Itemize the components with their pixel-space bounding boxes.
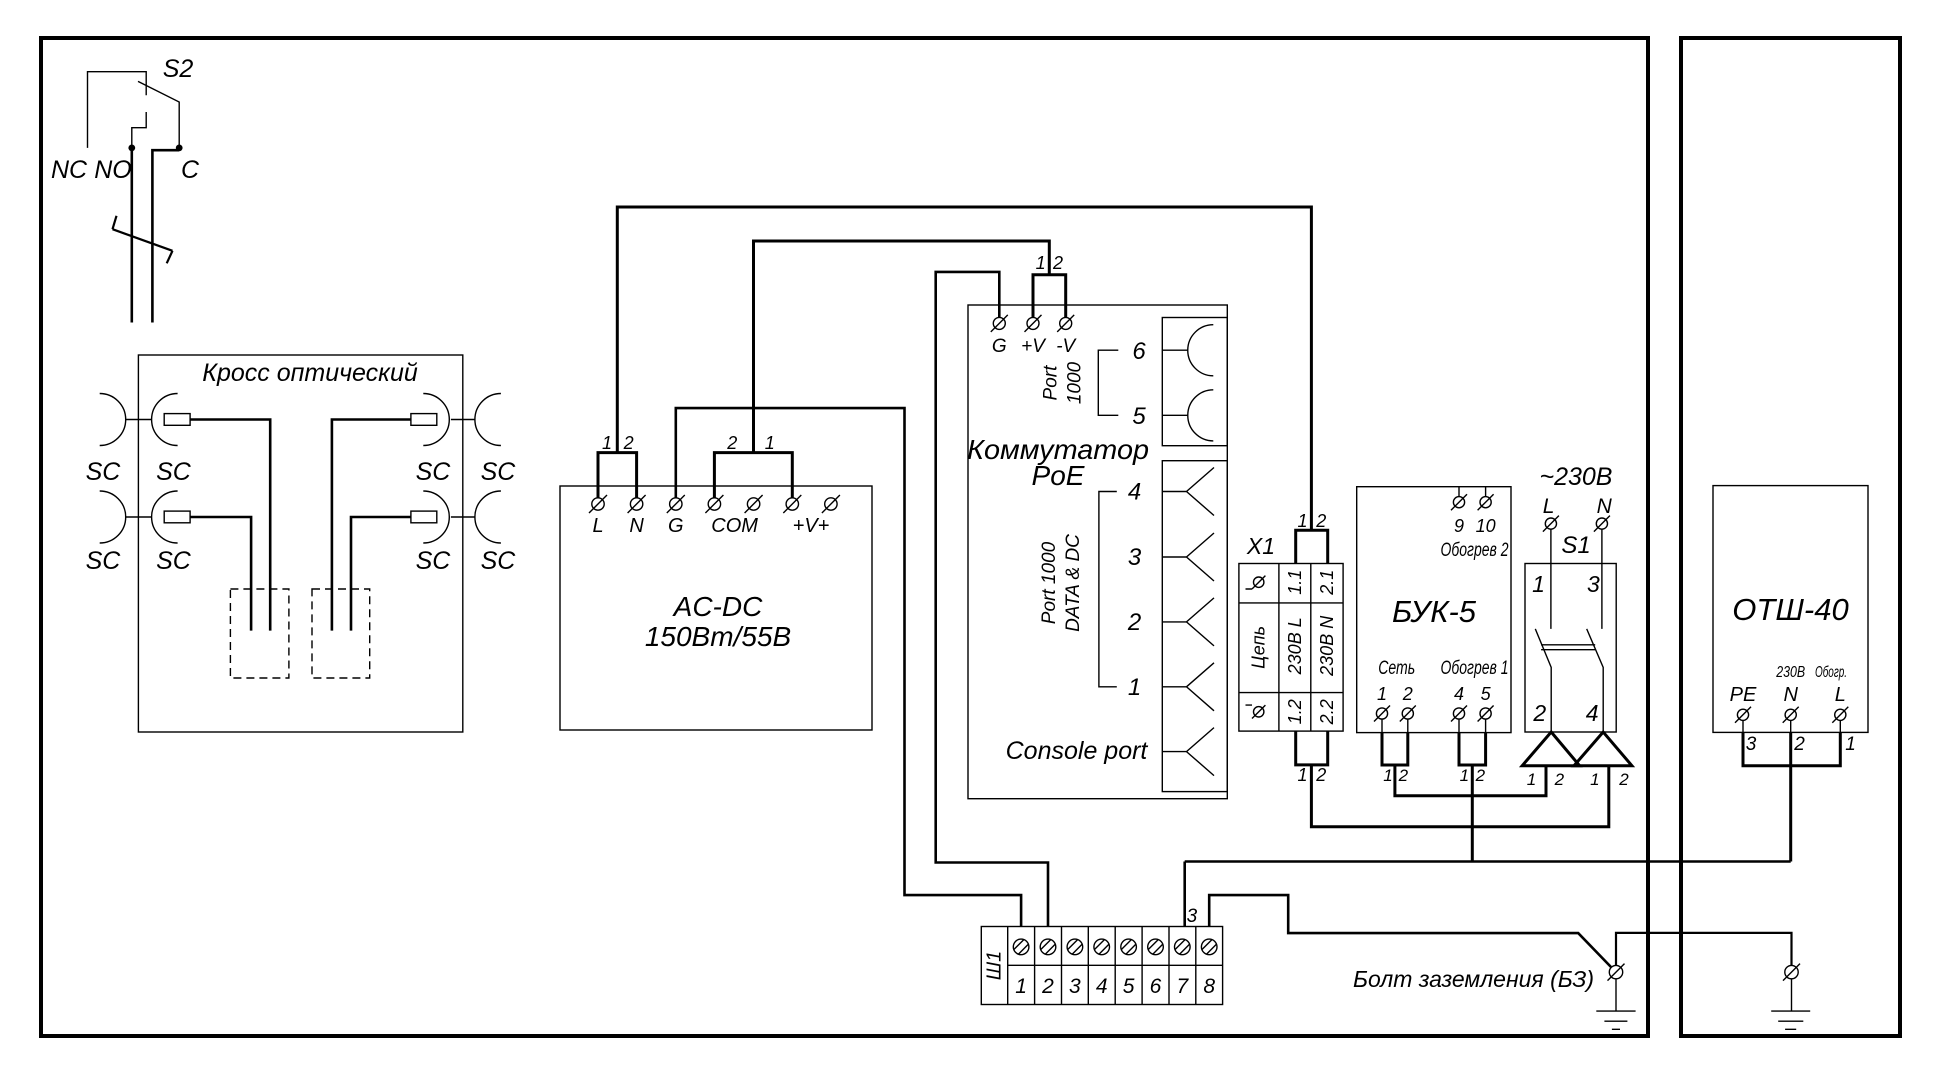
PoE switch box bbox=[968, 305, 1227, 799]
wire 55V from AC-DC to PoE switch bbox=[754, 241, 1050, 453]
Sh1 screws bbox=[1013, 939, 1217, 955]
svg-text:L: L bbox=[592, 515, 603, 537]
svg-text:2: 2 bbox=[1041, 975, 1054, 998]
svg-text:1.2: 1.2 bbox=[1285, 699, 1305, 724]
svg-text:1: 1 bbox=[1377, 684, 1387, 704]
svg-text:1: 1 bbox=[602, 433, 612, 453]
heater OTSh-40 box bbox=[1713, 486, 1868, 733]
svg-text:2: 2 bbox=[1315, 511, 1326, 531]
heater bus wire terminal7 to OTSh N bbox=[1185, 860, 1791, 863]
svg-text:G: G bbox=[992, 336, 1007, 357]
SC labels left bbox=[86, 458, 192, 575]
wire terminal8 to ground bolt bbox=[1209, 895, 1611, 967]
svg-text:6: 6 bbox=[1150, 975, 1162, 998]
svg-text:6: 6 bbox=[1132, 338, 1146, 365]
svg-text:N: N bbox=[1783, 684, 1798, 706]
OTSh pin numbers 3 2 1 bbox=[1746, 734, 1856, 755]
AC-DC power supply U1 bbox=[560, 486, 872, 730]
svg-text:~230В: ~230В bbox=[1540, 463, 1613, 491]
fiber wire right bottom bbox=[351, 517, 411, 631]
optical cross box bbox=[138, 355, 462, 732]
svg-text:2: 2 bbox=[726, 433, 737, 453]
plug symbol under S1 pin 4 bbox=[1574, 732, 1632, 766]
svg-text:NC: NC bbox=[51, 156, 88, 184]
svg-text:Ш1: Ш1 bbox=[984, 951, 1006, 981]
port 5 bbox=[1162, 390, 1213, 441]
svg-text:3: 3 bbox=[1069, 975, 1081, 998]
svg-text:PE: PE bbox=[1730, 684, 1757, 706]
port 6 bbox=[1162, 325, 1213, 376]
SC connector pair left bottom bbox=[100, 491, 126, 543]
wire PoE G to terminal 2 bbox=[936, 272, 1048, 927]
svg-text:4: 4 bbox=[1128, 479, 1141, 506]
svg-text:1000: 1000 bbox=[1065, 361, 1086, 404]
plug symbol under S1 pin 2 bbox=[1522, 732, 1579, 766]
svg-text:SC: SC bbox=[481, 547, 517, 575]
Port 1000 DATA and DC bracket bbox=[1099, 492, 1117, 687]
svg-text:5: 5 bbox=[1481, 684, 1492, 704]
S1 pole 1-2 bbox=[1535, 529, 1551, 732]
svg-text:2: 2 bbox=[1554, 770, 1565, 789]
wire from C down bbox=[152, 150, 179, 322]
fiber wire left top bbox=[190, 420, 270, 631]
AC-DC terminal labels bbox=[592, 515, 829, 537]
ground bolt BZ terminal bbox=[1608, 964, 1625, 981]
svg-text:2: 2 bbox=[1532, 700, 1546, 726]
svg-text:10: 10 bbox=[1476, 516, 1496, 536]
connector under Obogrev1 pins 1 2 bbox=[1459, 733, 1486, 765]
SC connector pair left top bbox=[100, 394, 126, 446]
svg-text:G: G bbox=[668, 515, 684, 537]
svg-text:2: 2 bbox=[1127, 609, 1141, 636]
svg-text:+V: +V bbox=[1021, 336, 1047, 357]
earth symbol left bbox=[1596, 979, 1635, 1030]
svg-text:7: 7 bbox=[1176, 975, 1189, 998]
BUK-5 pin numbers 1 2 4 5 bbox=[1377, 684, 1492, 704]
PoE terminal labels bbox=[992, 336, 1078, 357]
svg-text:N: N bbox=[1597, 495, 1613, 518]
svg-text:1: 1 bbox=[1460, 766, 1469, 785]
svg-text:9: 9 bbox=[1454, 516, 1464, 536]
svg-text:SC: SC bbox=[481, 458, 517, 486]
svg-text:SC: SC bbox=[416, 547, 452, 575]
controller BUK-5 box bbox=[1357, 487, 1511, 733]
svg-text:2: 2 bbox=[1475, 766, 1486, 785]
svg-text:5: 5 bbox=[1132, 403, 1146, 430]
svg-text:3: 3 bbox=[1587, 571, 1600, 597]
svg-text:SC: SC bbox=[86, 547, 122, 575]
X1 cell texts (rotated) bbox=[1249, 570, 1337, 726]
svg-text:Port 1000: Port 1000 bbox=[1039, 541, 1060, 624]
wire Set to S1 plug 2 bbox=[1395, 765, 1546, 796]
svg-text:3: 3 bbox=[1187, 906, 1198, 927]
OTSh terminals bbox=[1735, 707, 1848, 733]
svg-text:1: 1 bbox=[1845, 734, 1856, 755]
svg-text:2: 2 bbox=[1793, 734, 1805, 755]
RJ45 port symbols 4 3 2 1 and console bbox=[1162, 468, 1214, 776]
svg-text:3: 3 bbox=[1746, 734, 1757, 755]
svg-text:230В: 230В bbox=[1775, 664, 1805, 681]
S1 linkage bar bbox=[1541, 645, 1595, 650]
terminal strip Sh1 bbox=[981, 927, 1222, 1005]
svg-text:Console port: Console port bbox=[1006, 737, 1149, 765]
splice cassette left (dashed) bbox=[230, 589, 289, 678]
svg-text:1: 1 bbox=[1383, 766, 1392, 785]
svg-text:Болт заземления (БЗ): Болт заземления (БЗ) bbox=[1353, 966, 1594, 992]
svg-text:1: 1 bbox=[1532, 571, 1545, 597]
svg-text:4: 4 bbox=[1096, 975, 1108, 998]
svg-text:2: 2 bbox=[1398, 766, 1409, 785]
svg-text:PoE: PoE bbox=[1032, 460, 1085, 491]
svg-text:4: 4 bbox=[1454, 684, 1464, 704]
svg-text:2.2: 2.2 bbox=[1317, 699, 1337, 725]
svg-text:AC-DC: AC-DC bbox=[672, 591, 763, 622]
connector over L N pins 1 2 bbox=[598, 453, 637, 498]
svg-text:Кросс оптический: Кросс оптический bbox=[202, 359, 418, 387]
svg-text:1: 1 bbox=[1015, 975, 1027, 998]
svg-text:БУК-5: БУК-5 bbox=[1392, 594, 1477, 629]
svg-text:2: 2 bbox=[1402, 684, 1413, 704]
svg-text:SC: SC bbox=[156, 547, 192, 575]
ground bolt right terminal bbox=[1783, 964, 1800, 981]
wire 230V from AC-DC L-N to X1 bbox=[617, 207, 1311, 530]
AC-DC terminals L N G COM +V+ bbox=[589, 495, 840, 513]
svg-text:SC: SC bbox=[86, 458, 122, 486]
junction dot NO bbox=[128, 145, 135, 152]
svg-text:L: L bbox=[1543, 495, 1555, 518]
svg-text:230В N: 230В N bbox=[1317, 615, 1337, 677]
svg-text:1: 1 bbox=[1297, 765, 1307, 785]
fiber wire left bottom bbox=[190, 517, 251, 631]
svg-text:2: 2 bbox=[1052, 253, 1063, 273]
svg-text:N: N bbox=[629, 515, 644, 537]
svg-text:1: 1 bbox=[1297, 511, 1307, 531]
enclosure frame right cabinet bbox=[1681, 38, 1900, 1036]
S1 pole 3-4 bbox=[1587, 529, 1604, 732]
switch S2 bbox=[88, 72, 180, 148]
svg-text:2.1: 2.1 bbox=[1317, 570, 1337, 596]
wire OTSh N down bbox=[1789, 732, 1792, 861]
svg-text:Port: Port bbox=[1041, 365, 1062, 401]
svg-text:-V: -V bbox=[1056, 336, 1077, 357]
fiber wire right top bbox=[332, 420, 411, 631]
X1 screw symbol top bbox=[1246, 576, 1266, 589]
wire terminal7 to heater bus bbox=[1183, 862, 1186, 927]
Sh1 numbers 1-8 bbox=[1015, 975, 1215, 998]
breaker S1 box bbox=[1525, 564, 1616, 733]
cable marker symbol bbox=[113, 216, 173, 263]
SC labels right bbox=[416, 458, 517, 575]
svg-text:3: 3 bbox=[1128, 544, 1142, 571]
SC connector pair right top bbox=[475, 394, 501, 446]
svg-text:SC: SC bbox=[156, 458, 192, 486]
OTSh terminal labels PE N L bbox=[1730, 684, 1846, 706]
svg-text:150Вт/55В: 150Вт/55В bbox=[645, 621, 791, 652]
svg-text:2: 2 bbox=[1315, 765, 1326, 785]
svg-text:1: 1 bbox=[765, 433, 775, 453]
uplink port group box bbox=[1162, 318, 1227, 446]
svg-text:2: 2 bbox=[623, 433, 634, 453]
svg-text:2: 2 bbox=[1618, 770, 1629, 789]
supply terminals L N bbox=[1543, 516, 1610, 532]
svg-text:COM: COM bbox=[711, 515, 758, 537]
earth symbol right bbox=[1771, 979, 1810, 1030]
svg-text:Обогрев 2: Обогрев 2 bbox=[1441, 540, 1509, 561]
wire from NO down bbox=[131, 148, 134, 323]
X1 table bbox=[1239, 564, 1343, 732]
svg-text:ОТШ-40: ОТШ-40 bbox=[1732, 592, 1848, 627]
X1 screw symbol bottom bbox=[1246, 705, 1266, 718]
svg-text:C: C bbox=[181, 156, 200, 184]
connector over +V -V pins 1 2 bbox=[1033, 275, 1066, 318]
svg-text:8: 8 bbox=[1203, 975, 1215, 998]
svg-text:L: L bbox=[1835, 684, 1846, 706]
bonding wire between bolts bbox=[1616, 933, 1792, 966]
svg-text:Цепь: Цепь bbox=[1249, 626, 1269, 669]
svg-text:Сеть: Сеть bbox=[1378, 658, 1415, 679]
svg-text:SC: SC bbox=[416, 458, 452, 486]
BUK-5 bottom terminals bbox=[1374, 706, 1494, 733]
svg-text:1: 1 bbox=[1128, 674, 1141, 701]
svg-text:Обогр.: Обогр. bbox=[1815, 664, 1847, 681]
svg-text:1: 1 bbox=[1036, 253, 1046, 273]
svg-text:X1: X1 bbox=[1246, 533, 1275, 559]
svg-text:+V+: +V+ bbox=[793, 515, 830, 537]
svg-text:S2: S2 bbox=[163, 55, 194, 83]
BUK-5 terminals 9 10 bbox=[1451, 487, 1494, 511]
svg-text:5: 5 bbox=[1123, 975, 1135, 998]
X1 bottom plug pins 1 2 bbox=[1296, 731, 1328, 765]
wire Obogrev1 down to heater bus bbox=[1471, 765, 1474, 862]
wire AC-DC G to terminal 1 bbox=[676, 408, 1021, 926]
connector over COM +V pins 2 1 bbox=[714, 453, 792, 498]
svg-text:1: 1 bbox=[1527, 770, 1536, 789]
SC connector pair right bottom bbox=[475, 491, 501, 543]
svg-text:NO: NO bbox=[94, 156, 132, 184]
X1 top plug pins 1 2 bbox=[1296, 530, 1328, 563]
wire PE to L bridge bbox=[1743, 732, 1840, 765]
splice cassette right (dashed) bbox=[312, 589, 370, 678]
svg-text:Обогрев 1: Обогрев 1 bbox=[1441, 658, 1509, 679]
svg-text:S1: S1 bbox=[1561, 532, 1590, 559]
wire X1 to S1 plug 4 bbox=[1311, 765, 1608, 827]
junction dot C bbox=[176, 145, 183, 152]
svg-text:1: 1 bbox=[1590, 770, 1599, 789]
Port 1000 bracket bbox=[1098, 350, 1118, 415]
enclosure frame main cabinet bbox=[41, 38, 1648, 1036]
svg-text:230В L: 230В L bbox=[1285, 617, 1305, 675]
svg-text:1.1: 1.1 bbox=[1285, 570, 1305, 595]
svg-text:DATA & DC: DATA & DC bbox=[1063, 534, 1084, 632]
S1 pin numbers bbox=[1532, 571, 1600, 726]
port numbers 4 3 2 1 bbox=[1127, 479, 1142, 701]
data port group box bbox=[1162, 461, 1227, 792]
svg-text:4: 4 bbox=[1586, 700, 1599, 726]
PoE terminals G +V -V bbox=[991, 315, 1074, 332]
connector under Set pins 1 2 bbox=[1382, 733, 1408, 765]
